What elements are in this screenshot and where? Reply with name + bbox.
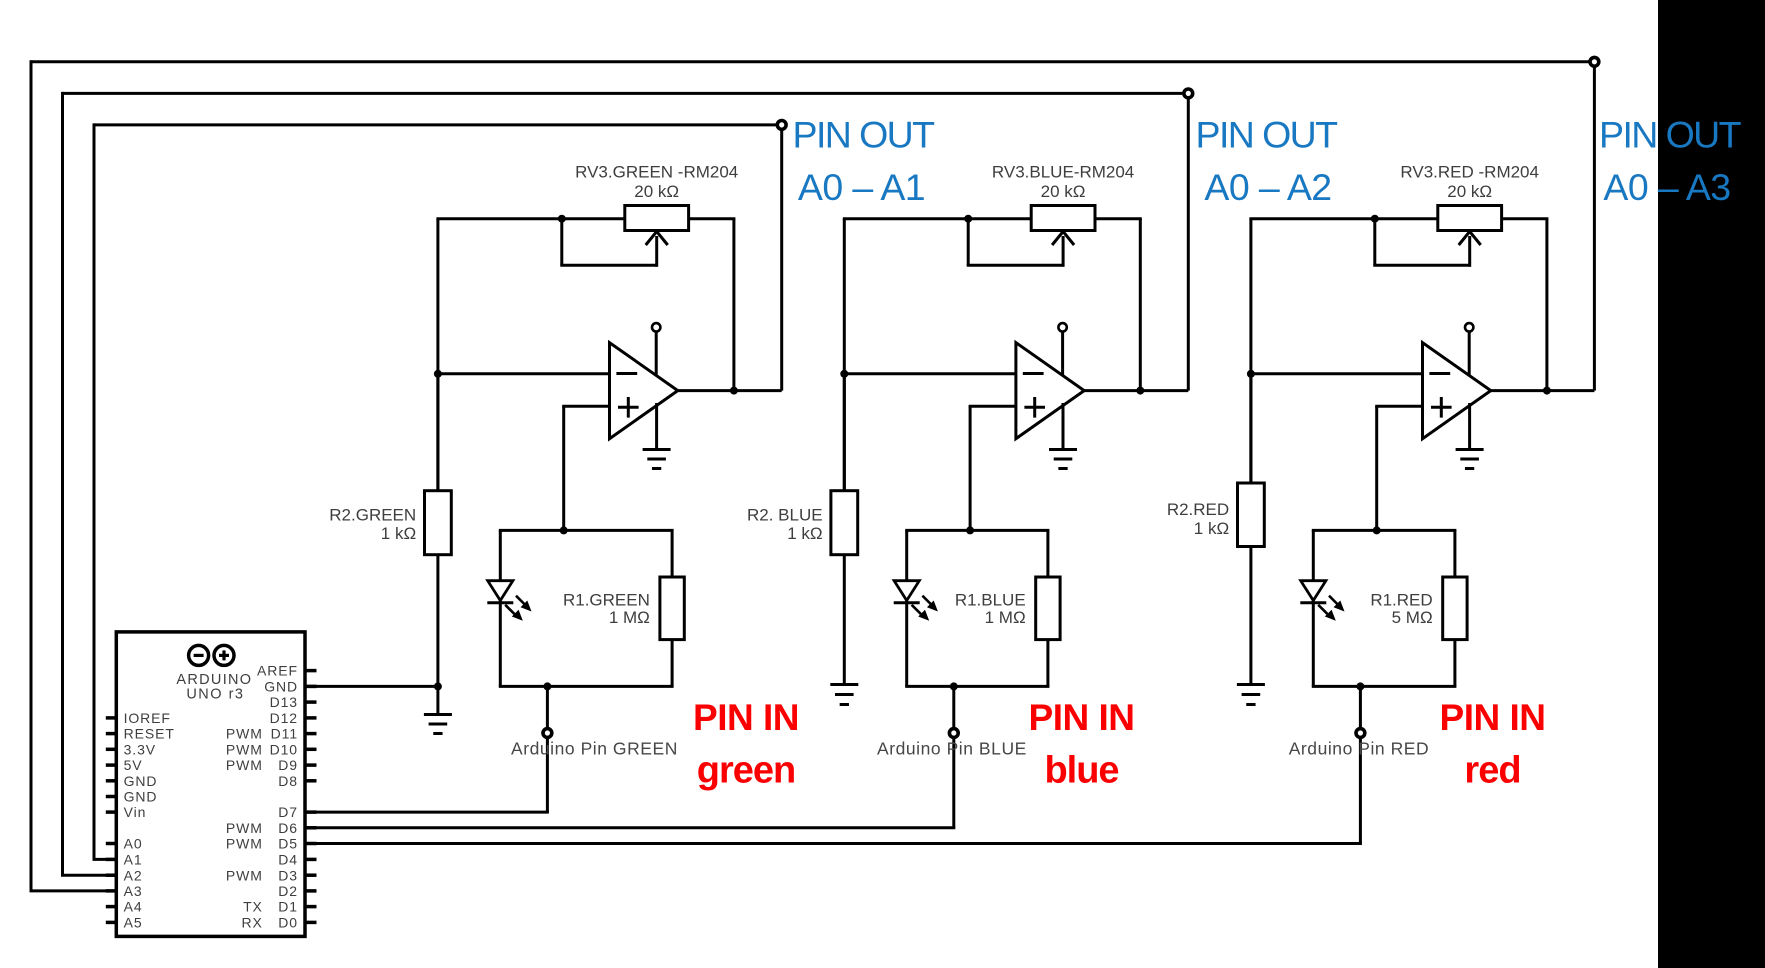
op-amp U.RED minus sign: [1429, 372, 1450, 375]
pin A3 stub (left): [106, 889, 117, 893]
wire GREEN: wiper stem: [655, 236, 658, 267]
svg-text:A0: A0: [124, 836, 143, 852]
svg-text:AREF: AREF: [257, 663, 298, 679]
pin AREF stub: [305, 669, 317, 673]
op-amp U.BLUE minus sign: [1023, 372, 1044, 375]
wire BLUE: non-inverting input vertical down to LED loop: [969, 406, 972, 530]
wire RED: op-amp non-inverting input horizontal: [1375, 405, 1422, 408]
potentiometer RV3.RED body: [1438, 206, 1502, 231]
wire RED: horizontal to Arduino digital pin: [305, 842, 1362, 845]
wire GREEN: wiper loop vertical: [560, 219, 563, 266]
op-amp U.BLUE triangle: [1016, 343, 1084, 439]
wire net A0-A1: right vertical (PIN OUT down to op-amp output): [780, 125, 783, 391]
wire BLUE: LED loop bottom: [905, 685, 1049, 688]
wire RED: wiper loop horizontal: [1373, 264, 1469, 267]
svg-text:Arduino Pin RED: Arduino Pin RED: [1289, 738, 1430, 758]
svg-text:D8: D8: [278, 773, 298, 789]
op-amp U.GREEN power stem: [655, 332, 658, 378]
LED LED.RED cathode bar: [1300, 601, 1326, 604]
junction RED: op-amp output / pot: [1543, 387, 1551, 395]
LED LED.RED arrow 1: [1329, 596, 1338, 605]
svg-text:RV3.RED -RM204: RV3.RED -RM204: [1400, 163, 1539, 182]
pin D4 stub: [305, 858, 317, 862]
ground (op-amp RED): [1456, 448, 1484, 451]
wire BLUE: wiper loop horizontal: [967, 264, 1063, 267]
pin D12 stub: [305, 716, 317, 720]
junction R2.GREEN/GND: [434, 682, 442, 690]
pin GND stub (left): [106, 779, 117, 783]
svg-text:PIN OUT: PIN OUT: [1599, 114, 1742, 156]
svg-text:1 kΩ: 1 kΩ: [381, 524, 416, 543]
black margin bar (right edge): [1658, 0, 1765, 968]
LED LED.GREEN cathode bar: [487, 601, 513, 604]
pin D1 stub: [305, 905, 317, 909]
wire BLUE: LED loop left (through LED): [905, 530, 908, 686]
ground (below R2.GREEN) stem: [436, 686, 439, 714]
svg-text:A3: A3: [124, 883, 143, 899]
resistor R1.RED body: [1443, 577, 1467, 640]
LED LED.GREEN triangle: [488, 581, 513, 601]
pin connector BLUE: Arduino pin ring: [949, 729, 958, 738]
svg-text:D10: D10: [270, 741, 298, 757]
wire net A0-A3: stub into Arduino pin A3: [30, 889, 118, 892]
LED LED.BLUE arrow 1: [922, 596, 931, 605]
wire RED: R2 bottom lead: [1249, 544, 1252, 684]
svg-text:D12: D12: [270, 710, 298, 726]
ground (op-amp GREEN): [643, 448, 671, 451]
potentiometer RV3.GREEN body: [625, 206, 689, 231]
pin RESET stub (left): [106, 732, 117, 736]
svg-text:blue: blue: [1044, 750, 1118, 792]
svg-text:3.3V: 3.3V: [124, 741, 156, 757]
wire RED: op-amp output: [1491, 389, 1595, 392]
svg-text:PWM: PWM: [226, 726, 263, 742]
pin GND stub (left): [106, 795, 117, 799]
op-amp U.RED power pin circle: [1465, 323, 1473, 331]
pin 5V stub (left): [106, 763, 117, 767]
Arduino UNO box: [116, 632, 305, 937]
wire RED: wiper loop vertical: [1373, 219, 1376, 266]
junction GREEN: inverting input / R2: [434, 370, 442, 378]
LED LED.RED triangle: [1301, 581, 1326, 601]
wire BLUE: left vertical (top wire to R2): [843, 219, 846, 494]
pin D8 stub: [305, 779, 317, 783]
svg-text:5 MΩ: 5 MΩ: [1392, 608, 1433, 627]
junction RED: inverting input / R2: [1247, 370, 1255, 378]
svg-text:GND: GND: [124, 789, 158, 805]
ground (below R2.GREEN): [424, 713, 452, 716]
pin D13 stub: [305, 700, 317, 704]
svg-text:PWM: PWM: [226, 836, 263, 852]
wire net A0-A2: right vertical (PIN OUT down to op-amp output): [1187, 93, 1190, 390]
Arduino logo: [189, 645, 209, 665]
pin D6 stub: [305, 826, 317, 830]
LED LED.BLUE cathode bar: [894, 601, 920, 604]
svg-text:PWM: PWM: [226, 757, 263, 773]
wire RED: pot right corner down to op-amp output: [1545, 219, 1548, 391]
ground (op-amp BLUE): [1049, 448, 1077, 451]
svg-text:PIN OUT: PIN OUT: [793, 114, 936, 156]
wire RED: LED loop left (through LED): [1312, 530, 1315, 686]
op-amp U.GREEN plus sign: [618, 406, 639, 409]
svg-text:RV3.BLUE-RM204: RV3.BLUE-RM204: [992, 163, 1134, 182]
wire BLUE: pot top-left segment: [843, 217, 1031, 220]
junction BLUE: LED loop bottom / pin wire: [950, 682, 958, 690]
svg-text:D7: D7: [278, 804, 298, 820]
junction BLUE: op-amp output / pot: [1136, 387, 1144, 395]
svg-text:R1.GREEN: R1.GREEN: [563, 590, 650, 609]
LED LED.GREEN arrow 1: [516, 596, 525, 605]
svg-text:D0: D0: [278, 915, 298, 931]
svg-text:PWM: PWM: [226, 820, 263, 836]
op-amp U.RED ground stem: [1468, 403, 1471, 450]
pin GND stub: [305, 685, 317, 689]
svg-text:D5: D5: [278, 836, 298, 852]
svg-text:1 kΩ: 1 kΩ: [1194, 519, 1229, 538]
svg-text:D13: D13: [270, 694, 298, 710]
svg-text:D9: D9: [278, 757, 298, 773]
svg-text:R1.BLUE: R1.BLUE: [955, 590, 1026, 609]
wire GREEN: LED loop bottom: [499, 685, 674, 688]
svg-text:A4: A4: [124, 899, 143, 915]
svg-text:A1: A1: [124, 852, 143, 868]
resistor R2.BLUE body: [831, 491, 858, 555]
wire BLUE: wiper stem: [1062, 236, 1065, 267]
svg-text:PIN IN: PIN IN: [1029, 697, 1135, 738]
pin D2 stub: [305, 889, 317, 893]
svg-text:GND: GND: [124, 773, 158, 789]
wire GREEN: LED loop right (through R1): [671, 530, 674, 686]
op-amp U.BLUE plus sign: [1024, 406, 1045, 409]
junction GREEN: wiper loop on top wire: [558, 215, 566, 223]
resistor R1.GREEN body: [660, 577, 684, 640]
wire BLUE: wiper loop vertical: [967, 219, 970, 266]
pin D3 stub: [305, 873, 317, 877]
ground (below R2.RED): [1237, 683, 1265, 686]
op-amp U.GREEN triangle: [610, 343, 678, 439]
svg-text:20 kΩ: 20 kΩ: [634, 182, 679, 201]
potentiometer RV3.GREEN wiper arrow: [646, 232, 668, 246]
pin D10 stub: [305, 748, 317, 752]
svg-text:TX: TX: [243, 899, 263, 915]
resistor R2.RED body: [1238, 483, 1265, 547]
wire GREEN: op-amp inverting input: [436, 372, 609, 375]
wire GREEN: LED loop top: [499, 529, 674, 532]
op-amp U.BLUE ground stem: [1062, 403, 1065, 450]
pin A0 stub (left): [106, 842, 117, 846]
svg-text:ARDUINO: ARDUINO: [176, 672, 252, 688]
svg-text:PIN IN: PIN IN: [693, 697, 799, 738]
pin connector RED: Arduino pin ring: [1356, 729, 1365, 738]
wire BLUE: R2 top lead: [843, 374, 846, 494]
junction BLUE: non-inverting input / LED loop top: [966, 526, 974, 534]
pin Vin stub (left): [106, 810, 117, 814]
svg-text:D3: D3: [278, 867, 298, 883]
potentiometer RV3.BLUE wiper arrow: [1052, 232, 1074, 246]
pin D5 stub: [305, 842, 317, 846]
svg-text:Arduino Pin BLUE: Arduino Pin BLUE: [877, 738, 1027, 758]
svg-text:A0 – A1: A0 – A1: [798, 166, 925, 208]
junction BLUE: wiper loop on top wire: [964, 215, 972, 223]
svg-text:UNO r3: UNO r3: [186, 687, 244, 703]
svg-text:A2: A2: [124, 867, 143, 883]
LED LED.BLUE arrow 2: [912, 605, 921, 614]
wire GREEN: pot right corner down to op-amp output: [732, 219, 735, 391]
wire net A0-A1: top horizontal: [94, 123, 778, 126]
wire GREEN: wiper loop horizontal: [560, 264, 656, 267]
pin D0 stub: [305, 921, 317, 925]
svg-text:D2: D2: [278, 883, 298, 899]
pin connector GREEN: Arduino pin ring: [543, 729, 552, 738]
wire RED: left vertical (top wire to R2): [1249, 219, 1252, 486]
pin D9 stub: [305, 763, 317, 767]
wire GREEN: Arduino GND pin to R2 bottom: [305, 685, 438, 688]
junction GREEN: op-amp output / pot: [730, 387, 738, 395]
svg-text:1 MΩ: 1 MΩ: [609, 608, 650, 627]
pin D7 stub: [305, 810, 317, 814]
wire BLUE: pot right segment: [1095, 217, 1142, 220]
pin IOREF stub (left): [106, 716, 117, 720]
svg-text:RX: RX: [242, 915, 263, 931]
svg-text:D6: D6: [278, 820, 298, 836]
pin connector BLUE: PIN OUT ring: [1184, 89, 1193, 98]
junction BLUE: inverting input / R2: [840, 370, 848, 378]
potentiometer RV3.RED wiper arrow: [1459, 232, 1481, 246]
wire net A0-A2: top horizontal: [63, 92, 1185, 95]
svg-text:5V: 5V: [124, 757, 143, 773]
op-amp U.GREEN ground stem: [655, 403, 658, 450]
ground (below R2.BLUE): [830, 683, 858, 686]
pin A4 stub (left): [106, 905, 117, 909]
pin D11 stub: [305, 732, 317, 736]
op-amp U.BLUE power pin circle: [1058, 323, 1066, 331]
op-amp U.RED power stem: [1468, 332, 1471, 378]
svg-text:PWM: PWM: [226, 741, 263, 757]
wire GREEN: left vertical (top wire to R2): [436, 219, 439, 494]
pin A1 stub (left): [106, 858, 117, 862]
pin connector RED: PIN OUT ring: [1590, 57, 1599, 66]
wire RED: LED loop right (through R1): [1453, 530, 1456, 686]
wire GREEN: pot right segment: [689, 217, 736, 220]
svg-text:A5: A5: [124, 915, 143, 931]
wire RED: wiper stem: [1468, 236, 1471, 267]
junction RED: non-inverting input / LED loop top: [1373, 526, 1381, 534]
op-amp U.GREEN minus sign: [616, 372, 637, 375]
svg-text:green: green: [697, 750, 795, 792]
resistor R1.BLUE body: [1036, 577, 1060, 640]
svg-text:PIN OUT: PIN OUT: [1196, 114, 1339, 156]
svg-text:PWM: PWM: [226, 867, 263, 883]
op-amp U.GREEN power pin circle: [652, 323, 660, 331]
wire BLUE: LED loop right (through R1): [1046, 530, 1049, 686]
wire RED: LED loop bottom junction down to Arduino pin: [1359, 686, 1362, 843]
wire net A0-A1: stub into Arduino pin A1: [93, 858, 118, 861]
svg-text:R2.RED: R2.RED: [1167, 500, 1229, 519]
svg-text:A0 – A3: A0 – A3: [1603, 166, 1730, 208]
svg-text:R2. BLUE: R2. BLUE: [747, 505, 823, 524]
junction RED: LED loop bottom / pin wire: [1356, 682, 1364, 690]
LED LED.RED arrow 2: [1318, 605, 1327, 614]
wire GREEN: op-amp non-inverting input horizontal: [562, 405, 609, 408]
svg-text:D11: D11: [271, 726, 298, 742]
wire RED: LED loop bottom: [1312, 685, 1457, 688]
svg-text:RESET: RESET: [124, 726, 175, 742]
resistor R2.GREEN body: [425, 491, 452, 555]
pin connector GREEN: PIN OUT ring: [777, 121, 786, 130]
svg-text:R2.GREEN: R2.GREEN: [329, 505, 416, 524]
wire net A0-A3: top horizontal: [31, 60, 1590, 63]
wire BLUE: LED loop bottom junction down to Arduino pin: [952, 686, 955, 827]
svg-text:red: red: [1464, 750, 1520, 792]
wire net A0-A1: left vertical: [93, 123, 96, 859]
svg-text:RV3.GREEN -RM204: RV3.GREEN -RM204: [575, 163, 738, 182]
junction RED: wiper loop on top wire: [1371, 215, 1379, 223]
pin A5 stub (left): [106, 921, 117, 925]
pin 3.3V stub (left): [106, 748, 117, 752]
svg-text:20 kΩ: 20 kΩ: [1041, 182, 1086, 201]
svg-text:20 kΩ: 20 kΩ: [1447, 182, 1492, 201]
wire BLUE: op-amp output: [1084, 389, 1188, 392]
svg-text:Vin: Vin: [124, 804, 147, 820]
wire GREEN: pot top-left segment: [436, 217, 624, 220]
wire BLUE: LED loop top: [905, 529, 1049, 532]
wire GREEN: op-amp output: [678, 389, 782, 392]
op-amp U.BLUE power stem: [1061, 332, 1064, 378]
svg-text:A0 – A2: A0 – A2: [1204, 166, 1331, 208]
wire BLUE: op-amp non-inverting input horizontal: [969, 405, 1016, 408]
wire RED: LED loop top: [1312, 529, 1457, 532]
junction GREEN: LED loop bottom / pin wire: [543, 682, 551, 690]
LED LED.BLUE triangle: [894, 581, 919, 601]
svg-text:GND: GND: [264, 679, 298, 695]
wire GREEN: horizontal to Arduino digital pin: [305, 811, 549, 814]
wire RED: pot right segment: [1502, 217, 1549, 220]
svg-text:R1.RED: R1.RED: [1370, 590, 1432, 609]
svg-text:1 MΩ: 1 MΩ: [985, 608, 1026, 627]
pin A2 stub (left): [106, 873, 117, 877]
wire RED: non-inverting input vertical down to LED loop: [1375, 406, 1378, 530]
junction GREEN: non-inverting input / LED loop top: [560, 526, 568, 534]
wire BLUE: pot right corner down to op-amp output: [1139, 219, 1142, 391]
wire GREEN: LED loop left (through LED): [499, 530, 502, 686]
wire net A0-A3: right vertical (PIN OUT down to op-amp output): [1593, 62, 1596, 391]
wire net A0-A2: left vertical: [61, 92, 64, 875]
svg-text:D4: D4: [278, 852, 298, 868]
potentiometer RV3.BLUE body: [1031, 206, 1095, 231]
wire BLUE: op-amp inverting input: [843, 372, 1016, 375]
wire RED: op-amp inverting input: [1249, 372, 1422, 375]
op-amp U.RED plus sign: [1431, 406, 1452, 409]
wire net A0-A2: stub into Arduino pin A2: [61, 874, 117, 877]
svg-text:PIN IN: PIN IN: [1440, 697, 1546, 738]
wire GREEN: R2 bottom lead: [436, 552, 439, 687]
svg-text:Arduino Pin GREEN: Arduino Pin GREEN: [511, 738, 678, 758]
wire GREEN: R2 top lead: [436, 374, 439, 494]
op-amp U.RED triangle: [1423, 343, 1491, 439]
LED LED.GREEN arrow 2: [505, 605, 514, 614]
wire BLUE: R2 bottom lead: [843, 552, 846, 683]
wire net A0-A3: left vertical: [30, 60, 33, 891]
svg-text:IOREF: IOREF: [124, 710, 171, 726]
wire RED: pot top-left segment: [1249, 217, 1437, 220]
svg-text:1 kΩ: 1 kΩ: [787, 524, 822, 543]
wire GREEN: non-inverting input vertical down to LED loop: [562, 406, 565, 530]
svg-text:D1: D1: [278, 899, 298, 915]
wire BLUE: horizontal to Arduino digital pin: [305, 826, 955, 829]
wire GREEN: LED loop bottom junction down to Arduino pin: [546, 686, 549, 812]
wire RED: R2 top lead: [1249, 374, 1252, 486]
